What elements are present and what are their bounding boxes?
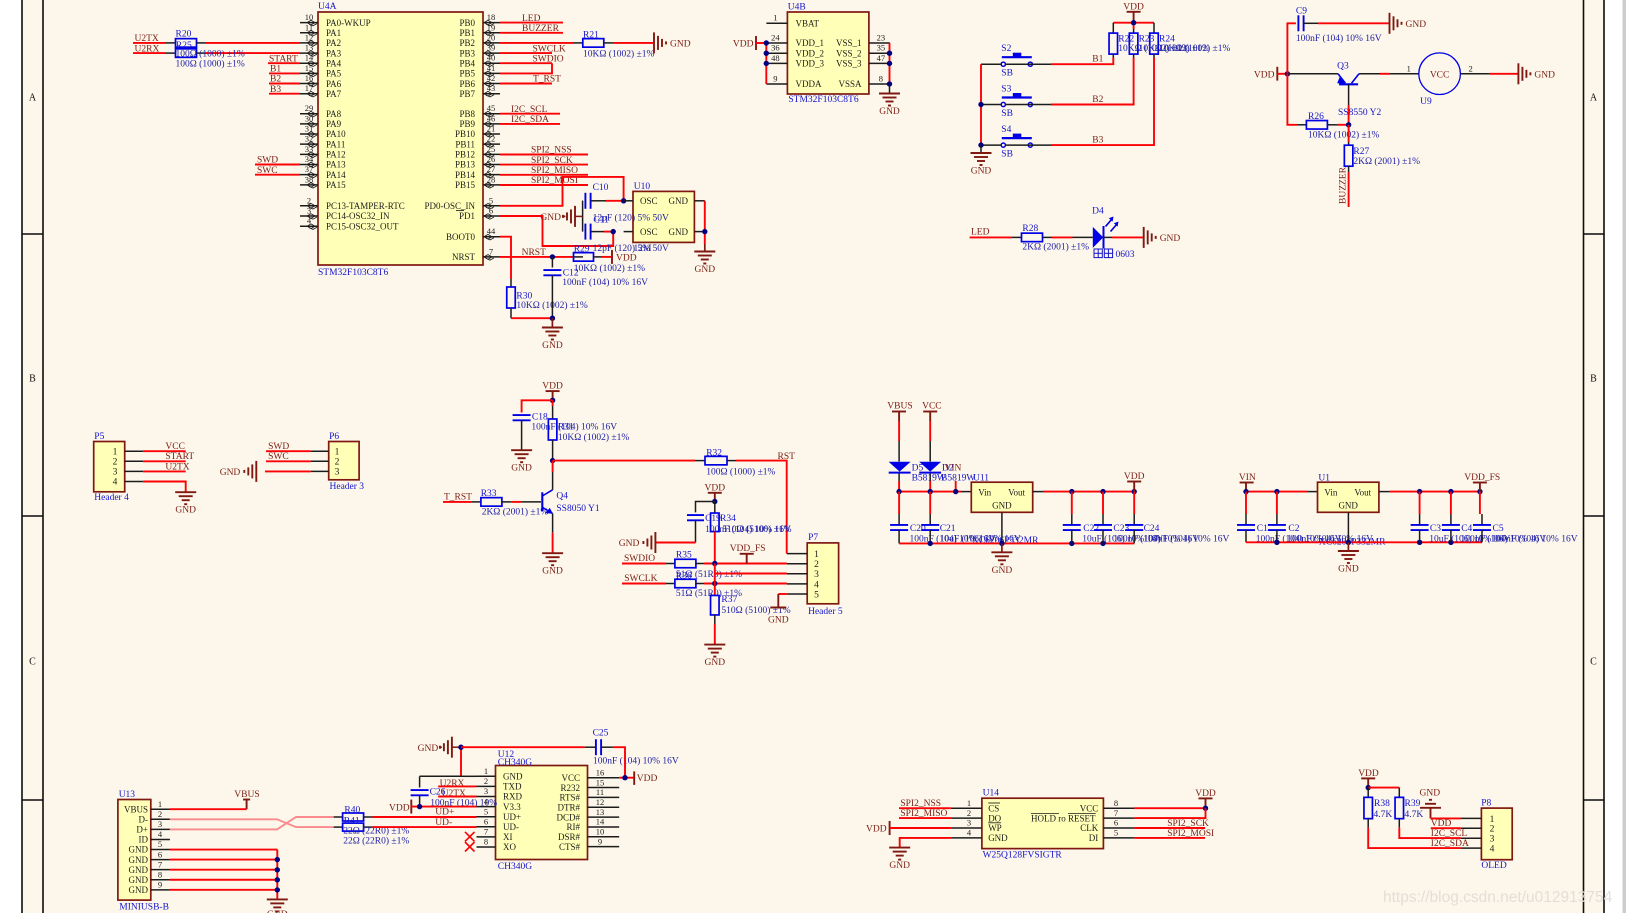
- svg-text:PA15: PA15: [326, 180, 346, 190]
- wire R25 to PA3: [206, 52, 300, 54]
- wire R20 to PA2: [206, 42, 300, 44]
- wire button common bus: [981, 63, 1001, 65]
- wire C9 to GND: [1318, 22, 1389, 24]
- svg-text:10: 10: [596, 827, 605, 837]
- svg-text:GND: GND: [889, 861, 910, 871]
- svg-text:SS8050 Y1: SS8050 Y1: [556, 504, 599, 514]
- svg-text:34: 34: [305, 154, 314, 164]
- svg-text:4: 4: [814, 580, 819, 590]
- svg-text:R34: R34: [720, 514, 736, 524]
- wire U2RX: [133, 52, 166, 54]
- svg-text:24: 24: [771, 33, 780, 43]
- svg-text:GND: GND: [1420, 789, 1441, 799]
- svg-text:GND: GND: [542, 341, 563, 351]
- svg-text:22Ω (22R0) ±1%: 22Ω (22R0) ±1%: [343, 835, 409, 846]
- resistor R20: [166, 42, 176, 44]
- svg-text:VSS_1: VSS_1: [836, 38, 862, 48]
- svg-text:BUZZER: BUZZER: [1339, 166, 1349, 204]
- svg-text:9: 9: [158, 880, 162, 890]
- power VDD right of U12: [633, 771, 635, 785]
- wire usb D+ crossover: [170, 817, 334, 829]
- svg-text:PA14: PA14: [326, 170, 346, 180]
- svg-text:SB: SB: [1001, 109, 1013, 119]
- svg-text:U1: U1: [1318, 474, 1330, 484]
- wire VBUS to D5: [898, 421, 900, 441]
- ground below U13 bus: [267, 898, 288, 900]
- svg-text:C12: C12: [563, 269, 579, 279]
- svg-text:PB3: PB3: [459, 48, 475, 58]
- svg-text:PB2: PB2: [459, 38, 475, 48]
- svg-text:GND: GND: [129, 855, 149, 865]
- svg-text:R232: R232: [560, 783, 580, 793]
- svg-text:RI#: RI#: [567, 822, 581, 832]
- svg-text:SS8550 Y2: SS8550 Y2: [1338, 108, 1381, 118]
- svg-text:VIN: VIN: [1239, 473, 1256, 483]
- header P6: [329, 442, 359, 480]
- capacitor C25: [585, 746, 596, 748]
- svg-text:GND: GND: [129, 845, 149, 855]
- resistor R34: [714, 502, 716, 514]
- capacitor C22: [1071, 492, 1073, 514]
- svg-text:5: 5: [1114, 828, 1118, 838]
- wire R35 to P7 pin2: [704, 563, 787, 565]
- resistor R32: [695, 460, 705, 462]
- spi flash U14: [982, 798, 1104, 848]
- svg-text:VDD_1: VDD_1: [796, 38, 825, 48]
- U9 pin2 wire to gnd: [1460, 73, 1489, 75]
- svg-text:PA10: PA10: [326, 129, 346, 139]
- svg-text:7: 7: [1114, 808, 1118, 818]
- wire PB5 up to PB4 net: [500, 63, 552, 73]
- svg-text:7: 7: [484, 827, 488, 837]
- ground right of D4: [1143, 227, 1145, 248]
- svg-text:DTR#: DTR#: [558, 802, 581, 812]
- svg-text:OSC: OSC: [640, 196, 658, 206]
- wire R39 to I2C_SCL: [1399, 828, 1461, 839]
- svg-text:GND: GND: [669, 196, 689, 206]
- junction dots crystal: [621, 198, 626, 203]
- wire R28 to LED: [1052, 236, 1073, 238]
- svg-text:XI: XI: [503, 832, 513, 842]
- svg-text:VCC: VCC: [1080, 803, 1099, 813]
- svg-text:GND: GND: [705, 658, 726, 668]
- svg-text:2KΩ (2001) ±1%: 2KΩ (2001) ±1%: [482, 507, 549, 518]
- svg-text:2: 2: [1468, 64, 1472, 74]
- sheet border frame: [21, 0, 23, 913]
- svg-text:GND: GND: [879, 107, 900, 117]
- wire R37 to gnd: [714, 624, 716, 644]
- svg-text:Q3: Q3: [1337, 62, 1349, 72]
- wire U14 vcc: [1134, 807, 1205, 809]
- svg-text:GND: GND: [992, 566, 1013, 576]
- wire Vin row U1: [1246, 491, 1308, 493]
- svg-text:1: 1: [1407, 64, 1411, 74]
- ground below P5: [175, 491, 196, 493]
- svg-text:3: 3: [158, 819, 162, 829]
- svg-text:GND: GND: [992, 500, 1012, 510]
- svg-text:10KΩ (1002) ±1%: 10KΩ (1002) ±1%: [1308, 130, 1379, 141]
- svg-text:WP: WP: [988, 823, 1002, 833]
- svg-text:R35: R35: [676, 551, 692, 561]
- svg-text:7: 7: [489, 246, 493, 256]
- svg-text:10KΩ (1002) ±1%: 10KΩ (1002) ±1%: [574, 263, 645, 274]
- wire D2 to rail: [929, 474, 931, 481]
- transistor Q4: [541, 492, 543, 511]
- svg-text:CTS#: CTS#: [559, 842, 581, 852]
- svg-text:100nF (104) 10% 16V: 100nF (104) 10% 16V: [1296, 33, 1382, 44]
- svg-text:14: 14: [596, 817, 605, 827]
- power VDD above C19: [708, 492, 722, 494]
- buzzer U9: [1419, 53, 1461, 95]
- svg-text:P5: P5: [94, 432, 104, 442]
- resistor R22: [1112, 23, 1114, 34]
- svg-text:Q4: Q4: [556, 492, 568, 502]
- svg-text:D+: D+: [136, 825, 148, 835]
- svg-text:R32: R32: [706, 448, 722, 458]
- capacitor C3: [1419, 492, 1421, 514]
- svg-text:U13: U13: [119, 790, 136, 800]
- svg-text:PB6: PB6: [459, 79, 475, 89]
- resistor R39: [1395, 797, 1404, 818]
- svg-text:VDD_3: VDD_3: [796, 59, 825, 69]
- power VDD above pullups: [1127, 11, 1141, 13]
- svg-text:PA4: PA4: [326, 58, 342, 68]
- svg-text:STM32F103C8T6: STM32F103C8T6: [318, 268, 388, 278]
- svg-text:UD-: UD-: [503, 822, 519, 832]
- capacitor C20: [898, 492, 900, 514]
- wire D5 to rail: [898, 474, 900, 481]
- svg-text:GND: GND: [418, 744, 439, 754]
- wire PB2 to R21: [500, 42, 574, 44]
- svg-text:5: 5: [158, 839, 162, 849]
- resistor R41: [334, 826, 343, 828]
- svg-text:B: B: [1590, 374, 1597, 385]
- wire U11 gnd stem: [1001, 512, 1003, 543]
- svg-text:PA1: PA1: [326, 28, 341, 38]
- svg-text:VDD: VDD: [1124, 472, 1145, 482]
- svg-text:4: 4: [1490, 845, 1495, 855]
- svg-text:Header 5: Header 5: [808, 607, 843, 617]
- U4A pins PA8-PA15: [300, 113, 318, 115]
- svg-text:2: 2: [158, 809, 162, 819]
- resistor R29: [573, 256, 583, 258]
- svg-text:VBUS: VBUS: [234, 790, 259, 800]
- ground below buttons: [980, 145, 982, 152]
- U4A pins PD0 PD1 BOOT0 NRST: [483, 205, 500, 207]
- svg-text:PB7: PB7: [459, 89, 475, 99]
- svg-text:35: 35: [877, 43, 886, 53]
- svg-text:VDDA: VDDA: [796, 79, 822, 89]
- svg-text:B2: B2: [1092, 95, 1103, 105]
- wire RST row: [553, 460, 695, 462]
- svg-text:2: 2: [1490, 825, 1495, 835]
- svg-text:GND: GND: [503, 772, 523, 782]
- svg-text:47: 47: [877, 53, 886, 63]
- svg-text:PB9: PB9: [459, 119, 475, 129]
- U4A right pins PB8-PB15: [483, 113, 500, 115]
- capacitor C18: [522, 400, 553, 412]
- wire U4B vdd bus: [765, 43, 767, 84]
- switch S2: [1001, 62, 1005, 66]
- svg-text:PA11: PA11: [326, 139, 345, 149]
- svg-text:GND: GND: [542, 567, 563, 577]
- resistor R25: [166, 52, 176, 54]
- svg-text:TXD: TXD: [503, 782, 522, 792]
- svg-text:4.7K: 4.7K: [1374, 810, 1393, 820]
- svg-text:1: 1: [967, 798, 971, 808]
- resistor R26: [1287, 74, 1297, 125]
- ground below Q4: [542, 552, 563, 554]
- svg-text:PA6: PA6: [326, 79, 342, 89]
- svg-text:GND: GND: [619, 539, 640, 549]
- svg-text:P8: P8: [1481, 799, 1491, 809]
- svg-text:C1: C1: [1257, 524, 1268, 534]
- svg-text:VDD: VDD: [1254, 70, 1275, 80]
- svg-text:2: 2: [484, 776, 488, 786]
- svg-text:16: 16: [596, 767, 605, 777]
- svg-text:PB8: PB8: [459, 109, 475, 119]
- svg-text:GND: GND: [1338, 500, 1358, 510]
- svg-text:W25Q128FVSIGTR: W25Q128FVSIGTR: [983, 851, 1063, 861]
- resistor R35: [666, 563, 675, 565]
- wire gnd to P8 pin1: [1431, 817, 1461, 819]
- svg-text:PA7: PA7: [326, 89, 342, 99]
- resistor R40: [334, 816, 343, 818]
- ground left of P6 wire: [265, 470, 311, 472]
- capacitor C24: [1133, 492, 1135, 514]
- svg-text:3: 3: [335, 468, 340, 478]
- wire U13 pin1 VBUS: [170, 808, 247, 810]
- wire gnd to C25: [461, 746, 585, 748]
- wire U1 gnd stem: [1347, 512, 1349, 542]
- svg-text:VDD: VDD: [1195, 789, 1216, 799]
- svg-text:DO: DO: [988, 813, 1001, 823]
- svg-text:VDD_FS: VDD_FS: [1464, 473, 1500, 483]
- wire P5 pin4 to gnd: [143, 482, 186, 492]
- svg-text:GND: GND: [695, 265, 716, 275]
- wire PD1 to crystal: [500, 216, 613, 246]
- no-connect XO: [465, 842, 475, 852]
- svg-text:D4: D4: [1092, 207, 1104, 217]
- capacitor C21: [929, 492, 931, 514]
- svg-text:3: 3: [484, 786, 488, 796]
- svg-text:2: 2: [814, 560, 819, 570]
- svg-text:VDD: VDD: [389, 804, 410, 814]
- wire R21 to GND: [613, 42, 653, 44]
- wire Vout row U1: [1379, 491, 1390, 493]
- svg-text:PB1: PB1: [459, 28, 475, 38]
- wire R33 to Q4 base: [512, 501, 522, 503]
- svg-text:C24: C24: [1144, 524, 1160, 534]
- svg-text:R20: R20: [176, 30, 192, 40]
- svg-text:CS: CS: [988, 803, 999, 813]
- crystal U10: [633, 191, 694, 242]
- svg-text:VSSA: VSSA: [838, 79, 862, 89]
- switch S4: [1001, 143, 1005, 147]
- svg-text:0603: 0603: [1116, 250, 1135, 260]
- svg-text:GND: GND: [129, 885, 149, 895]
- svg-text:C26: C26: [430, 788, 446, 798]
- svg-text:Header 4: Header 4: [94, 493, 129, 503]
- regulator U1: [1318, 482, 1379, 512]
- svg-text:GND: GND: [129, 865, 149, 875]
- U4A pins PA0-PA7: [300, 22, 318, 24]
- gnd rail U11: [899, 542, 1134, 544]
- svg-text:PA9: PA9: [326, 119, 342, 129]
- capacitor C23: [1102, 492, 1104, 514]
- svg-text:R23: R23: [1139, 34, 1155, 44]
- resistor R28: [1012, 236, 1021, 238]
- svg-text:R27: R27: [1353, 147, 1369, 157]
- resistor R23: [1133, 29, 1135, 33]
- header P7: [807, 543, 838, 604]
- resistor R30: [510, 279, 512, 287]
- svg-text:PB5: PB5: [459, 69, 475, 79]
- svg-text:CH340G: CH340G: [498, 862, 532, 872]
- ground below U14 gnd pin: [889, 847, 910, 849]
- svg-text:48: 48: [771, 53, 780, 63]
- svg-text:PA5: PA5: [326, 69, 342, 79]
- svg-text:VDD: VDD: [705, 483, 726, 493]
- svg-text:R30: R30: [516, 292, 532, 302]
- svg-text:10KΩ (1002) ±1%: 10KΩ (1002) ±1%: [1159, 43, 1230, 54]
- ground below U1: [1347, 542, 1349, 550]
- svg-text:15: 15: [596, 777, 605, 787]
- wire U4B vss bus: [889, 43, 891, 84]
- wire Q3 collector to buzzer: [1359, 73, 1380, 75]
- svg-text:Vin: Vin: [978, 488, 991, 498]
- svg-text:OLED: OLED: [1481, 861, 1506, 871]
- svg-text:PB10: PB10: [455, 129, 476, 139]
- svg-text:ID: ID: [139, 835, 149, 845]
- svg-text:PC15-OSC32_OUT: PC15-OSC32_OUT: [326, 221, 399, 231]
- gnd rail U1: [1246, 541, 1482, 543]
- svg-text:VDD_FS: VDD_FS: [730, 544, 766, 554]
- svg-text:5: 5: [814, 590, 819, 600]
- ground below U10: [704, 244, 706, 251]
- capacitor C5: [1479, 492, 1481, 514]
- svg-text:GND: GND: [1160, 234, 1181, 244]
- svg-text:R28: R28: [1022, 224, 1038, 234]
- svg-text:GND: GND: [220, 468, 241, 478]
- ground below C18: [511, 449, 532, 451]
- svg-text:Vout: Vout: [1354, 488, 1371, 498]
- wire U14 gnd: [900, 838, 951, 847]
- svg-text:GND: GND: [669, 227, 689, 237]
- svg-text:DSR#: DSR#: [558, 832, 581, 842]
- svg-text:2: 2: [967, 808, 971, 818]
- svg-text:R31: R31: [558, 423, 574, 433]
- net label BUZZER vertical wire: [1348, 172, 1350, 207]
- capacitor C12: [551, 257, 553, 268]
- capacitor C10: [582, 200, 584, 202]
- svg-text:VBUS: VBUS: [887, 402, 912, 412]
- resistor R37: [711, 595, 720, 615]
- resistor R27: [1348, 125, 1350, 142]
- svg-text:R37: R37: [721, 595, 737, 605]
- svg-text:PB13: PB13: [455, 160, 476, 170]
- svg-text:GND: GND: [1338, 565, 1359, 575]
- svg-text:CH340G: CH340G: [498, 758, 532, 768]
- regulator U11: [971, 482, 1032, 512]
- U14 overlines and HOLD RESET: [988, 802, 1000, 804]
- wire Vin row U11: [899, 491, 961, 493]
- mcu power U4B: [787, 12, 869, 94]
- svg-text:PB12: PB12: [455, 150, 475, 160]
- svg-text:6: 6: [489, 206, 493, 216]
- svg-text:VSS_2: VSS_2: [836, 48, 862, 58]
- resistor R38: [1367, 788, 1369, 798]
- svg-text:1: 1: [113, 447, 118, 457]
- svg-text:6: 6: [158, 849, 162, 859]
- svg-text:2: 2: [113, 458, 118, 468]
- svg-text:RXD: RXD: [503, 792, 523, 802]
- svg-text:UD+: UD+: [503, 812, 521, 822]
- junction C12 gnd: [550, 316, 555, 321]
- svg-text:DI: DI: [1089, 833, 1099, 843]
- header P5: [94, 442, 125, 492]
- svg-text:9: 9: [773, 74, 777, 84]
- svg-text:PB0: PB0: [459, 18, 475, 28]
- svg-text:23: 23: [877, 33, 886, 43]
- svg-text:VCC: VCC: [922, 402, 942, 412]
- svg-text:PC14-OSC32_IN: PC14-OSC32_IN: [326, 211, 390, 221]
- diode D2: [919, 462, 941, 472]
- led D4: [1093, 227, 1103, 248]
- svg-text:8: 8: [158, 869, 162, 879]
- svg-text:R26: R26: [1308, 112, 1324, 122]
- svg-text:Header 3: Header 3: [330, 482, 365, 492]
- svg-text:XO: XO: [503, 842, 516, 852]
- svg-text:3: 3: [1490, 835, 1495, 845]
- svg-text:B1: B1: [1092, 55, 1103, 65]
- ground below U4B: [889, 84, 891, 93]
- svg-text:PA2: PA2: [326, 38, 341, 48]
- svg-text:VDD: VDD: [637, 774, 658, 784]
- wire Q4 emitter to gnd: [552, 514, 554, 533]
- svg-text:1: 1: [773, 13, 777, 23]
- svg-text:12pF (120) 5% 50V: 12pF (120) 5% 50V: [593, 213, 669, 224]
- svg-text:C21: C21: [940, 524, 956, 534]
- U4A right pins PB0-PB7: [483, 22, 500, 24]
- ground left of C19: [656, 542, 696, 544]
- svg-text:PB14: PB14: [455, 170, 476, 180]
- svg-text:U10: U10: [634, 182, 651, 192]
- svg-text:2KΩ (2001) ±1%: 2KΩ (2001) ±1%: [1353, 156, 1420, 167]
- svg-text:PC13-TAMPER-RTC: PC13-TAMPER-RTC: [326, 201, 405, 211]
- svg-text:510Ω (5100) ±1%: 510Ω (5100) ±1%: [722, 524, 791, 535]
- svg-text:2KΩ (2001) ±1%: 2KΩ (2001) ±1%: [1022, 242, 1089, 253]
- diode D5: [889, 462, 911, 472]
- svg-text:CLK: CLK: [1080, 823, 1099, 833]
- wire S3 to B2: [1006, 104, 1052, 106]
- ground below R37: [704, 644, 725, 646]
- resistor R31: [552, 400, 554, 406]
- ground below C12: [551, 318, 553, 327]
- svg-text:GND: GND: [971, 167, 992, 177]
- svg-text:14: 14: [305, 53, 314, 63]
- svg-text:P7: P7: [808, 533, 818, 543]
- capacitor C11: [584, 224, 586, 240]
- ground between C10 C11: [582, 201, 584, 232]
- svg-text:C3: C3: [1430, 524, 1441, 534]
- svg-text:C18: C18: [532, 413, 548, 423]
- svg-text:C2: C2: [1288, 524, 1299, 534]
- svg-text:LED: LED: [971, 228, 990, 238]
- ground below U11: [1001, 543, 1003, 552]
- svg-text:SB: SB: [1001, 69, 1013, 79]
- wire BOOT0 down: [500, 237, 511, 279]
